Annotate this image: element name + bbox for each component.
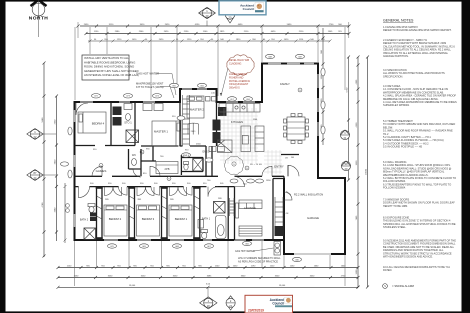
svg-text:AS PER LPGA CODE OF PRACTICE: AS PER LPGA CODE OF PRACTICE — [238, 260, 278, 263]
left side dim line near bath2 — [64, 183, 70, 243]
bottom dim line middle — [57, 275, 360, 279]
svg-text:ENTRY: ENTRY — [274, 165, 284, 169]
kitchen left wall w appliances — [216, 102, 218, 146]
bottom dim line 1 — [57, 265, 360, 269]
kitchen pantry shelf unit — [218, 140, 233, 153]
svg-text:NORTH: NORTH — [29, 15, 48, 21]
bath2 shower X square — [84, 228, 96, 240]
svg-text:TO COMPLY WITH NZBC/B2 AND NZS: TO COMPLY WITH NZBC/B2 AND NZS 3602:2003… — [383, 122, 455, 126]
svg-text:BEDRM 1: BEDRM 1 — [175, 217, 188, 221]
pantry shelf strip — [275, 197, 283, 236]
dim line right of family — [321, 28, 325, 145]
lounge couch — [239, 200, 262, 209]
bottom dim line 2 — [57, 284, 360, 289]
svg-text:FOLLOW NZS3604.: FOLLOW NZS3604. — [383, 186, 406, 190]
svg-text:STAINLESS STEEL.: STAINLESS STEEL. — [383, 225, 407, 229]
exterior wall outline — [75, 64, 346, 255]
svg-text:= SMOKE ALARM: = SMOKE ALARM — [392, 284, 415, 288]
svg-text:AN INTERNAL NOISE LEVEL OF 30d: AN INTERNAL NOISE LEVEL OF 30dB LAeq. — [84, 73, 139, 77]
svg-text:INSTALL HRV VENTILATION TO ALL: INSTALL HRV VENTILATION TO ALL — [84, 56, 129, 60]
partition end piers — [96, 187, 201, 240]
robe cross ticks bedrooms — [97, 196, 200, 219]
svg-text:SUPERFLEX WPM001: SUPERFLEX WPM001 — [383, 103, 410, 107]
bedroom wardrobe double doors bedrm1 — [170, 187, 187, 196]
svg-text:300x45 IS: 300x45 IS — [229, 87, 240, 90]
garage door opening — [294, 253, 331, 256]
right section marker 1 — [340, 130, 349, 140]
svg-text:RATED.: RATED. — [383, 268, 392, 272]
master double doors — [188, 123, 199, 134]
bedroom4 right wall and robe — [75, 102, 136, 146]
svg-text:MAXPROBE 100 VENT: MAXPROBE 100 VENT — [136, 82, 164, 86]
maxprobe vent note — [136, 82, 174, 98]
smoke alarm circles in plan — [140, 88, 302, 181]
svg-text:CLADDING: CLADDING — [229, 62, 241, 65]
grid bubble 87/24 — [27, 169, 56, 180]
svg-text:BEDRM 2: BEDRM 2 — [109, 217, 122, 221]
hot water cylinder dark — [275, 226, 284, 236]
window left wall — [73, 110, 76, 227]
left dim line 1 — [42, 62, 46, 258]
entry tile grid — [264, 150, 282, 174]
window tag ovals below bottom wall — [108, 179, 302, 262]
right black bar — [462, 0, 470, 313]
wc room — [129, 149, 142, 176]
svg-text:HABITABLE ROOMS (BEDROOM, LIVI: HABITABLE ROOMS (BEDROOM, LIVING — [84, 60, 135, 64]
ens2 toilet — [184, 162, 189, 171]
garage interior wall to entry — [283, 200, 285, 240]
right section marker 2 — [341, 161, 350, 171]
lounge left wall — [234, 187, 236, 240]
entry door arc — [288, 165, 299, 176]
svg-text:LDF: LDF — [285, 213, 290, 215]
pin marker top — [225, 10, 235, 23]
left dim line 2 — [55, 95, 59, 242]
svg-text:Council: Council — [272, 301, 284, 305]
kitchen island — [241, 126, 251, 152]
svg-text:GARAGE: GARAGE — [307, 216, 319, 220]
svg-text:13,040: 13,040 — [129, 285, 136, 287]
corridor bottom wall — [75, 186, 235, 188]
beds bedrooms — [104, 205, 192, 236]
right dim line 2 — [366, 56, 370, 289]
svg-text:BATH 1: BATH 1 — [202, 218, 211, 221]
bath2 vanity dark boxes — [90, 213, 96, 217]
extra oval tags — [68, 68, 325, 178]
bath1 door arc — [208, 187, 218, 197]
svg-text:SPECIFICATION.: SPECIFICATION. — [383, 74, 403, 78]
room label games — [96, 164, 107, 174]
lpg cylinders note — [238, 257, 281, 263]
bath1 tub — [216, 216, 227, 239]
robe dark squares bed4 — [113, 107, 122, 116]
bath1 toilet — [201, 230, 208, 239]
extension lines bottom — [75, 241, 346, 298]
svg-text:MASTER 1: MASTER 1 — [154, 130, 168, 134]
bath1 shower X square — [214, 202, 226, 214]
svg-text:GAS HOT WATER: GAS HOT WATER — [136, 72, 159, 76]
smoke alarm legend — [383, 284, 415, 289]
2PB box — [156, 162, 178, 174]
HRV note box — [82, 55, 139, 80]
sto1 fixtures — [124, 104, 132, 121]
master1 bed — [152, 121, 181, 146]
corridor top wall — [75, 175, 219, 177]
garage left wall thick — [283, 178, 285, 254]
bedroom partition walls — [97, 187, 229, 240]
linen shelf rungs right of bath1 — [230, 198, 235, 216]
window gaps master top wall — [182, 88, 207, 91]
svg-text:STO 1: STO 1 — [124, 121, 132, 125]
master2 bed — [187, 96, 216, 118]
svg-text:2PB: 2PB — [165, 167, 170, 171]
tiny dims row above bedroom doors — [90, 183, 224, 185]
lounge rug — [239, 226, 262, 236]
bath2 door arc — [79, 187, 90, 198]
kitchen appliance dark tower — [213, 120, 221, 131]
lpg cylinders — [274, 242, 281, 256]
kitchen bench along top — [219, 104, 260, 113]
stair strip wall — [273, 179, 284, 241]
svg-text:ENS 4: ENS 4 — [183, 155, 190, 157]
master wing inner wall — [180, 102, 206, 146]
svg-text:5.1 WALL, FLOOR AND ROOF FRAMI: 5.1 WALL, FLOOR AND ROOF FRAMING ---- RA… — [383, 129, 453, 133]
extension lines from top dims to walls — [75, 27, 345, 100]
masters wardrobe ladder — [183, 95, 190, 146]
svg-text:FAMILY: FAMILY — [280, 82, 290, 86]
svg-text:ENS 2: ENS 2 — [203, 151, 211, 154]
svg-text:GAMES: GAMES — [96, 169, 107, 173]
corridor right wall to entry — [206, 146, 212, 176]
svg-text:13,040: 13,040 — [279, 285, 286, 287]
window gaps kitchen top wall — [226, 101, 255, 104]
dim end connectors — [78, 22, 349, 38]
window gaps family right wall — [317, 74, 320, 136]
Auckland Council red stamp bottom — [245, 295, 293, 313]
svg-text:10.0 ALL CEILING RECESSED DOWN: 10.0 ALL CEILING RECESSED DOWNLIGHTS TO … — [383, 265, 450, 269]
svg-text:WITH ENGINEER'S DESIGN AND ADV: WITH ENGINEER'S DESIGN AND ADVICE. — [383, 255, 433, 259]
svg-text:BATH 2: BATH 2 — [80, 218, 89, 221]
ens walls — [141, 146, 203, 175]
right dim line 1 — [356, 56, 360, 289]
ens2 shower X square — [193, 159, 203, 172]
svg-text:5.5 IN-GOUND POST/PILE ---- H5: 5.5 IN-GOUND POST/PILE ---- H5 — [383, 145, 423, 149]
shower X box hall — [126, 130, 139, 143]
grid bubble 1/22 — [27, 128, 56, 139]
bedroom wardrobe double doors bedrm2 — [105, 187, 122, 196]
svg-text:WC: WC — [132, 153, 136, 157]
svg-text:BEDRM 4: BEDRM 4 — [92, 122, 105, 126]
laundry fixtures right of sto1 — [143, 104, 163, 111]
svg-text:HEIGHT TO BE 1980.: HEIGHT TO BE 1980. — [383, 204, 408, 208]
svg-text:LOUNGE: LOUNGE — [244, 206, 256, 210]
section marker top — [199, 7, 216, 26]
lounge tv cabinet — [236, 203, 239, 218]
svg-text:23010: 23010 — [366, 168, 368, 175]
bottom section marker diamond — [200, 297, 217, 309]
north arrow — [29, 0, 48, 37]
svg-text:ROOM, DINING AND KITCHEN). SOU: ROOM, DINING AND KITCHEN). SOUND — [84, 65, 134, 69]
svg-text:MASTER 2: MASTER 2 — [190, 108, 204, 112]
svg-text:1DB: 1DB — [253, 119, 258, 121]
lounge/entry wall — [235, 176, 285, 178]
family entry half wall — [281, 154, 299, 156]
Auckland Council blue stamp — [219, 1, 266, 15]
left black bar — [0, 0, 6, 313]
dim line left of garage right wall — [347, 56, 351, 182]
svg-text:R2.2 WALL INSULATION: R2.2 WALL INSULATION — [294, 193, 323, 197]
svg-text:Council: Council — [243, 7, 254, 11]
oval tag left — [61, 162, 69, 166]
svg-text:KIT TO TOILET (100 fa): KIT TO TOILET (100 fa) — [136, 85, 164, 89]
top dimension line 2 — [85, 31, 351, 35]
revision cloud with red note — [220, 55, 254, 96]
bed bedroom4 — [78, 112, 106, 133]
revision cloud 2 — [224, 156, 243, 174]
svg-text:GENERATED BY HRV SHALL NOT EXC: GENERATED BY HRV SHALL NOT EXCEED — [84, 69, 139, 73]
svg-text:GARAGE PARTITION.: GARAGE PARTITION. — [383, 54, 409, 58]
family dining table — [284, 114, 309, 144]
svg-text:REFER TO BUILDING ENVELOPE RIS: REFER TO BUILDING ENVELOPE RISK MATRIX R… — [383, 28, 452, 32]
window gaps on top wall — [80, 101, 155, 104]
svg-text:GENERAL NOTES: GENERAL NOTES — [383, 19, 414, 23]
svg-text:GAS HOT WATER: GAS HOT WATER — [235, 250, 255, 253]
bath2 toilet — [88, 204, 95, 213]
bottom pin marker — [226, 296, 235, 310]
bath1 vanity — [198, 220, 204, 229]
top dimension line 3 — [88, 39, 332, 43]
svg-text:23/05/2019: 23/05/2019 — [248, 308, 264, 312]
window gaps family top wall — [268, 62, 314, 65]
scattered tiny dimension texts in plan — [93, 93, 295, 202]
svg-text:BEDRM 3: BEDRM 3 — [142, 217, 155, 221]
window gaps bedroom bottom wall — [104, 239, 264, 242]
gas hot water note — [136, 72, 176, 96]
door arcs corridor/bedrooms — [76, 103, 292, 200]
bedroom wardrobe double doors bedrm3 — [137, 187, 154, 196]
label dns4 — [182, 153, 191, 157]
kitchen right bench — [255, 126, 264, 152]
top black line — [0, 0, 470, 2]
svg-text:KITCHEN: KITCHEN — [231, 120, 243, 124]
window tag ovals above top walls — [92, 54, 305, 101]
svg-text:WL + 20 SB: WL + 20 SB — [250, 164, 262, 166]
bottom black line — [0, 311, 470, 313]
ens2 vanity row — [209, 147, 225, 152]
top dimension line 1 — [77, 24, 351, 28]
kitchen tile grid — [220, 108, 258, 164]
